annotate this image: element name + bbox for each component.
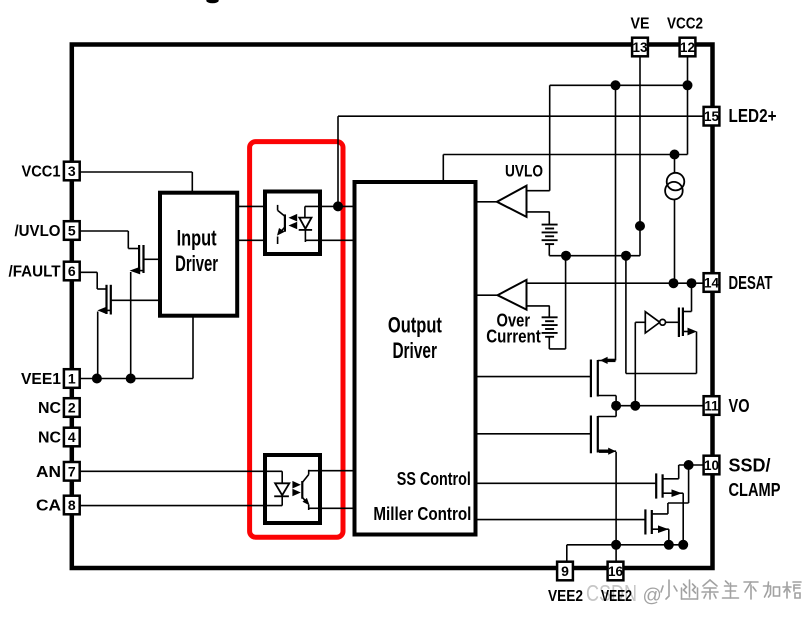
svg-text:VEE2: VEE2 xyxy=(548,588,583,605)
svg-text:SSD/: SSD/ xyxy=(729,456,771,476)
svg-text:2: 2 xyxy=(68,400,76,416)
svg-text:10: 10 xyxy=(704,458,719,473)
svg-text:VE: VE xyxy=(631,16,650,33)
svg-text:CA: CA xyxy=(36,498,61,515)
svg-text:VCC1: VCC1 xyxy=(22,164,61,181)
svg-text:VO: VO xyxy=(729,396,750,416)
svg-text:VEE2: VEE2 xyxy=(601,588,632,605)
svg-text:11: 11 xyxy=(704,399,719,414)
svg-text:/UVLO: /UVLO xyxy=(15,223,61,240)
svg-text:3: 3 xyxy=(68,163,76,179)
svg-text:Input: Input xyxy=(177,225,217,250)
svg-text:15: 15 xyxy=(704,109,720,124)
svg-text:5: 5 xyxy=(68,223,76,239)
svg-text:NC: NC xyxy=(38,400,61,417)
svg-text:VEE1: VEE1 xyxy=(21,371,61,388)
svg-text:4: 4 xyxy=(68,429,76,445)
svg-text:CLAMP: CLAMP xyxy=(729,480,781,500)
svg-text:8: 8 xyxy=(68,497,76,513)
svg-text:Current: Current xyxy=(486,326,541,346)
svg-text:@: @ xyxy=(643,586,662,607)
svg-text:14: 14 xyxy=(704,276,720,291)
svg-text:9: 9 xyxy=(561,563,569,579)
svg-text:Driver: Driver xyxy=(392,338,437,363)
svg-text:7: 7 xyxy=(68,463,76,479)
svg-text:12: 12 xyxy=(680,40,695,55)
svg-text:NC: NC xyxy=(38,430,61,447)
svg-text:13: 13 xyxy=(632,40,648,55)
svg-text:1: 1 xyxy=(68,371,76,387)
svg-text:Output: Output xyxy=(388,312,442,337)
svg-text:LED2+: LED2+ xyxy=(729,106,777,126)
svg-text:AN: AN xyxy=(36,464,61,481)
svg-text:/FAULT: /FAULT xyxy=(9,264,61,281)
svg-text:UVLO: UVLO xyxy=(505,162,543,181)
svg-text:Driver: Driver xyxy=(175,251,218,276)
svg-text:VCC2: VCC2 xyxy=(667,16,703,33)
svg-text:Miller Control: Miller Control xyxy=(373,504,471,524)
svg-text:DESAT: DESAT xyxy=(729,273,773,293)
svg-text:SS Control: SS Control xyxy=(397,469,471,489)
svg-text:6: 6 xyxy=(68,263,76,279)
svg-text:16: 16 xyxy=(608,564,624,579)
